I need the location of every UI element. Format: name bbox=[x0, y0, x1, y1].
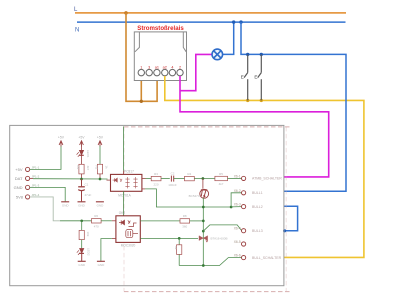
LED D2 bbox=[77, 249, 84, 262]
connector X6 pin1 bbox=[242, 176, 246, 180]
junction blue on N 2 bbox=[239, 20, 242, 23]
resistor R9 bbox=[178, 238, 180, 244]
relay terminal a2 bbox=[162, 69, 168, 75]
svg-text:GND: GND bbox=[78, 204, 86, 208]
wire blue lamp to N bbox=[222, 22, 233, 54]
svg-text:BC547C: BC547C bbox=[189, 194, 201, 198]
svg-text:PC817: PC817 bbox=[124, 169, 134, 173]
wire L line bbox=[75, 12, 346, 14]
wire N line bbox=[77, 21, 346, 23]
svg-text:X6-3: X6-3 bbox=[234, 203, 241, 207]
svg-text:C1: C1 bbox=[85, 182, 89, 186]
optocoupler OK1 body bbox=[111, 174, 142, 191]
connector X6 pin3 bbox=[242, 205, 246, 209]
junction DAT-R1 bbox=[80, 178, 83, 181]
svg-text:LED2: LED2 bbox=[86, 248, 90, 256]
resistor R2 bbox=[99, 146, 101, 164]
relay terminal labels bbox=[140, 66, 181, 70]
resistor R6 bbox=[92, 219, 102, 223]
ground OK2 bbox=[97, 260, 105, 262]
relay shoulder left bbox=[135, 32, 140, 52]
junction pale-R5 bbox=[80, 219, 83, 222]
svg-text:+5V: +5V bbox=[15, 167, 23, 172]
junction blue switch2 top bbox=[260, 53, 263, 56]
wire OK2 cathode to GND bbox=[101, 239, 112, 261]
lamp E1 bbox=[212, 49, 223, 60]
wire OK2 out bottom to triac gate bbox=[140, 237, 198, 239]
svg-text:R3: R3 bbox=[154, 172, 158, 176]
resistor R1 bbox=[79, 164, 84, 174]
power +5V symbol 3 bbox=[97, 136, 104, 147]
relay terminal 3 bbox=[146, 69, 152, 75]
svg-text:E: E bbox=[254, 75, 257, 80]
wire to pin4 bbox=[203, 225, 241, 231]
svg-text:MOC3020: MOC3020 bbox=[121, 244, 136, 248]
svg-text:BULL2: BULL2 bbox=[252, 205, 263, 209]
relay terminal 4 bbox=[169, 69, 175, 75]
junction yellow switch1 bbox=[246, 99, 249, 102]
connector JP1 pin 1 bbox=[26, 167, 30, 171]
wire magenta terminal2 main run bbox=[180, 76, 329, 177]
svg-text:R4: R4 bbox=[187, 172, 191, 176]
power +5V symbol 1 bbox=[58, 136, 65, 147]
svg-text:GND: GND bbox=[98, 263, 106, 267]
wire to pin2 bbox=[231, 193, 241, 207]
triac T1 bbox=[199, 236, 208, 243]
relay terminal 1 bbox=[138, 69, 144, 75]
svg-text:10k: 10k bbox=[86, 232, 90, 237]
junction emitter bbox=[202, 206, 205, 209]
junction triac pin4 bbox=[202, 230, 205, 233]
svg-text:N: N bbox=[75, 28, 79, 34]
svg-text:39: 39 bbox=[174, 246, 178, 250]
ground R2col bbox=[96, 201, 104, 203]
dashed danger zone frame bbox=[124, 127, 292, 292]
LED D1 bbox=[77, 146, 84, 164]
wire bottom net to pin6 bbox=[179, 258, 241, 266]
wire orange to terminal 1 bbox=[140, 77, 142, 102]
power +5V symbol 2 bbox=[78, 136, 85, 147]
svg-text:R1: R1 bbox=[76, 166, 80, 170]
connector X6 pin2 bbox=[242, 191, 246, 195]
OK1 pin left bbox=[107, 179, 111, 181]
junction blue switch1 top bbox=[246, 53, 249, 56]
svg-text:220: 220 bbox=[153, 182, 158, 186]
svg-text:OK2: OK2 bbox=[119, 211, 126, 215]
connector X6 pin6 bbox=[242, 256, 246, 260]
svg-text:GND: GND bbox=[78, 263, 86, 267]
junction orange bbox=[140, 100, 143, 103]
wire blue loop pin3 to pin4 bbox=[284, 206, 298, 231]
wire OK2 out top / resistor R8 bbox=[140, 220, 180, 222]
OK2 pin left top bbox=[112, 220, 116, 222]
ground C1 bbox=[78, 201, 86, 203]
svg-text:GND: GND bbox=[62, 204, 70, 208]
OK1 pin right bottom bbox=[142, 188, 145, 190]
junction pin2 riser bbox=[230, 206, 233, 209]
wire +5V net bbox=[30, 146, 61, 169]
svg-text:R8: R8 bbox=[183, 214, 187, 218]
OK1 pin right top bbox=[142, 178, 146, 180]
wire to junction bbox=[194, 178, 215, 180]
relay terminal a1 bbox=[154, 69, 160, 75]
junction blue on N 1 bbox=[232, 20, 235, 23]
connector JP1 pin 2 bbox=[26, 176, 30, 180]
junction R9 top bbox=[178, 237, 181, 240]
ground pin3 bbox=[61, 201, 69, 203]
junction R8-vert bbox=[202, 220, 205, 223]
relay U1 body bbox=[134, 32, 186, 81]
svg-text:BULL1: BULL1 bbox=[252, 191, 263, 195]
svg-text:+5V: +5V bbox=[78, 136, 85, 140]
schematic sheet box bbox=[10, 125, 284, 285]
svg-text:BTA16-600B: BTA16-600B bbox=[211, 237, 228, 241]
wire to pin3 bbox=[231, 206, 241, 208]
svg-text:E: E bbox=[241, 75, 244, 80]
connector JP1 pin 3 bbox=[26, 185, 30, 189]
svg-text:4k7: 4k7 bbox=[86, 166, 90, 171]
svg-text:DAT: DAT bbox=[15, 176, 23, 181]
wire OK1 bottom to OK2 top bbox=[122, 191, 124, 216]
relay terminal 2 bbox=[177, 69, 183, 75]
svg-text:5V8: 5V8 bbox=[16, 194, 24, 199]
svg-text:X6-2: X6-2 bbox=[234, 189, 241, 193]
junction blue at box edge bbox=[283, 229, 286, 232]
svg-text:360: 360 bbox=[182, 225, 187, 229]
switch S1 bbox=[244, 54, 248, 100]
svg-text:R6: R6 bbox=[94, 214, 98, 218]
connector JP1 pin 4 bbox=[26, 195, 30, 199]
svg-text:BULL3: BULL3 bbox=[252, 229, 263, 233]
svg-text:47uF: 47uF bbox=[85, 193, 92, 197]
wire OK1 top net bbox=[123, 126, 125, 170]
svg-text:Stromstoßrelais: Stromstoßrelais bbox=[137, 25, 184, 32]
junction DAT-R2 bbox=[99, 178, 102, 181]
connector X6 pin5 bbox=[242, 242, 246, 246]
wire emitter net bbox=[145, 189, 231, 207]
relay shoulder right bbox=[183, 32, 186, 52]
optocoupler OK1 inner symbols bbox=[113, 177, 138, 188]
svg-text:BULL_SCHALTER: BULL_SCHALTER bbox=[252, 256, 282, 260]
svg-text:LED1: LED1 bbox=[86, 150, 90, 158]
wire DAT net bbox=[30, 177, 33, 179]
wire blue N to switches to box pin2 bbox=[241, 22, 346, 191]
wire GND net pin3 bbox=[30, 187, 65, 201]
connector X6 pin4 bbox=[242, 229, 246, 233]
svg-text:R5: R5 bbox=[219, 172, 223, 176]
wire yellow a2 to box pin6 bbox=[165, 76, 364, 257]
svg-text:+5V: +5V bbox=[58, 136, 65, 140]
wire orange drop from L bbox=[126, 13, 157, 101]
capacitor C1 bbox=[78, 179, 85, 201]
optocoupler OK2 inner symbols bbox=[119, 220, 138, 238]
svg-text:C2: C2 bbox=[171, 172, 175, 176]
OK2 pin left bottom bbox=[112, 238, 116, 240]
resistor R7 bbox=[81, 221, 83, 231]
junction yellow switch2 bbox=[260, 99, 263, 102]
transistor Q1 bbox=[202, 179, 204, 189]
wire pin4 pale net bbox=[30, 197, 60, 221]
optocoupler OK2 body bbox=[116, 216, 140, 243]
svg-text:GND: GND bbox=[97, 204, 105, 208]
switch S2 bbox=[258, 54, 262, 100]
svg-text:X6-1: X6-1 bbox=[234, 174, 241, 178]
svg-text:470: 470 bbox=[94, 225, 99, 229]
ground LED D2 bbox=[78, 260, 86, 262]
wire magenta branch to lamp bbox=[180, 54, 212, 90]
junction bottom bbox=[202, 264, 205, 267]
svg-text:X6-5: X6-5 bbox=[234, 240, 241, 244]
svg-text:X6-4: X6-4 bbox=[234, 227, 241, 231]
svg-text:R2: R2 bbox=[95, 166, 99, 170]
svg-text:ATMB_SCHALTER: ATMB_SCHALTER bbox=[252, 177, 282, 181]
capacitor C2 bbox=[161, 178, 170, 180]
svg-text:4k7: 4k7 bbox=[219, 182, 224, 186]
svg-text:+5V: +5V bbox=[97, 136, 104, 140]
svg-text:MCT61A: MCT61A bbox=[118, 193, 131, 197]
connector JP1 labels bbox=[14, 167, 24, 200]
resistor R3 bbox=[146, 178, 152, 180]
junction on L bbox=[124, 11, 128, 15]
resistor R5 bbox=[215, 176, 228, 180]
svg-text:X6-6: X6-6 bbox=[234, 254, 241, 258]
svg-text:100nF: 100nF bbox=[168, 183, 177, 187]
svg-text:GND: GND bbox=[14, 185, 23, 190]
junction base node bbox=[202, 177, 205, 180]
svg-text:1k: 1k bbox=[105, 166, 109, 170]
resistor R4 bbox=[174, 178, 185, 180]
